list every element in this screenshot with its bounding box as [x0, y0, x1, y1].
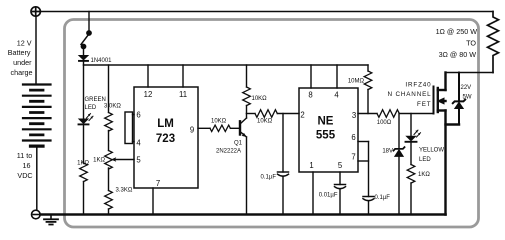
resistor 10K (base) [210, 125, 230, 131]
pin 7 wire to bus [152, 188, 154, 215]
resistor 1K (green LED) [80, 163, 88, 182]
label 12V battery under charge [8, 39, 33, 77]
svg-text:0.1µF: 0.1µF [375, 195, 391, 201]
svg-text:FET: FET [417, 101, 431, 108]
resistor 100 ohm [377, 110, 399, 118]
svg-text:LED: LED [419, 157, 431, 163]
wire 3.0K to pot [108, 131, 110, 151]
svg-text:12 V: 12 V [17, 39, 32, 48]
minus terminal [32, 210, 41, 219]
wire top rail down to switch [88, 12, 90, 32]
svg-text:4: 4 [334, 91, 339, 100]
pin 1 wire to bus [312, 172, 314, 215]
svg-text:11: 11 [179, 90, 187, 99]
wire 100 ohm to FET gate [399, 113, 433, 115]
svg-text:IRFZ40: IRFZ40 [405, 82, 431, 89]
wire Q1 collector to node [246, 114, 248, 119]
reference element box between pins 6 and 4 [125, 112, 134, 144]
wire rail down green LED branch [83, 65, 85, 119]
green LED D2 [79, 114, 94, 125]
resistor 10K (series to pin 2) [255, 110, 277, 118]
label IRFZ40 N CHANNEL FET [387, 82, 431, 109]
svg-text:8: 8 [308, 91, 312, 100]
svg-text:GREEN: GREEN [85, 97, 106, 103]
board outline [65, 20, 479, 228]
wire switch to diode [83, 49, 85, 56]
pin 9 wire [198, 127, 210, 129]
svg-text:charge: charge [11, 68, 33, 77]
svg-text:VDC: VDC [17, 171, 32, 180]
pin 11 wire [182, 65, 184, 87]
svg-text:6: 6 [136, 111, 140, 120]
wire node down to 18V zener [398, 114, 400, 149]
pin 5 wire to 0.01uF cap [339, 172, 341, 185]
wire 1K to bus [410, 183, 412, 215]
pin 6 wire [358, 141, 369, 143]
wire drain node down to 22V zener [458, 73, 460, 101]
resistor 10K (pullup) [243, 87, 251, 106]
pot wiper wire to pin 5 [111, 157, 134, 161]
svg-text:2N2222A: 2N2222A [216, 149, 241, 155]
timer U2 NE555 box [299, 88, 358, 172]
power resistor 1-3 ohm [488, 12, 499, 73]
svg-text:10KΩ: 10KΩ [257, 119, 273, 125]
svg-text:10KΩ: 10KΩ [252, 96, 268, 102]
wire 22V zener to source wire [458, 109, 460, 125]
capacitor 0.01uF [335, 185, 346, 189]
wire node to 10K series [247, 113, 256, 115]
ground [44, 215, 58, 225]
svg-text:10MΩ: 10MΩ [348, 79, 365, 85]
svg-text:4: 4 [136, 139, 141, 148]
diode D1 1N4001 [79, 56, 88, 61]
yellow LED D3 [406, 130, 421, 142]
wire 10K to Q1 base [230, 127, 239, 129]
svg-text:1KΩ: 1KΩ [77, 161, 89, 167]
capacitor 0.1uF (pin 2) [278, 172, 289, 176]
svg-text:5: 5 [136, 156, 141, 165]
op-amp U1 LM723 box [134, 87, 198, 188]
wire top rail from plus to power resistor [41, 11, 493, 13]
wire pot to 3.3K [108, 168, 110, 191]
wire FET source to zener bottom [446, 123, 460, 125]
wire 10K to NE555 pin 2 [277, 113, 299, 115]
svg-text:1: 1 [309, 161, 313, 170]
wire yellow LED to 1K [410, 143, 412, 165]
wire plus terminal down to battery [35, 16, 37, 84]
svg-text:3.0KΩ: 3.0KΩ [104, 104, 121, 110]
V+ rail wire [84, 64, 369, 66]
potentiometer 1K [105, 151, 113, 170]
resistor 3.3K [105, 191, 113, 210]
wire diode to V+ rail [83, 62, 85, 66]
wire rail down to 10K pullup [246, 65, 248, 87]
svg-text:1KΩ: 1KΩ [418, 172, 430, 178]
svg-text:3Ω @ 80 W: 3Ω @ 80 W [439, 50, 477, 59]
svg-text:5W: 5W [463, 95, 472, 101]
pin 8 wire [310, 65, 312, 88]
svg-text:3: 3 [352, 111, 356, 120]
wire drain horizontal [446, 72, 494, 74]
pin 3 wire [358, 113, 377, 115]
svg-text:Q1: Q1 [234, 141, 243, 147]
svg-text:10KΩ: 10KΩ [211, 119, 227, 125]
svg-text:0.01µF: 0.01µF [319, 193, 338, 199]
svg-text:6: 6 [351, 133, 355, 142]
wire Q1 emitter to bus [246, 137, 248, 215]
wire zener to bus [398, 156, 400, 214]
svg-text:12: 12 [144, 90, 153, 99]
svg-text:YELLOW: YELLOW [419, 148, 444, 154]
wire rail down 3.0K chain [108, 65, 110, 113]
wire 1K to bus [83, 182, 85, 215]
svg-text:1N4001: 1N4001 [91, 58, 113, 64]
pin 4 wire [336, 65, 338, 88]
svg-text:100Ω: 100Ω [377, 120, 392, 126]
svg-text:TO: TO [466, 39, 476, 48]
wire 10K pullup to node [246, 106, 248, 114]
resistor 1K (yellow LED) [407, 165, 415, 184]
pin 12 wire [147, 65, 149, 87]
svg-text:5: 5 [338, 161, 343, 170]
svg-text:under: under [13, 58, 32, 67]
wire 0.01uF to bus [339, 189, 341, 215]
svg-text:3.3KΩ: 3.3KΩ [116, 188, 133, 194]
wire cap to bus [368, 201, 370, 215]
switch S1 [81, 31, 91, 49]
label power resistor [436, 27, 478, 59]
svg-text:11 to: 11 to [17, 151, 32, 160]
plus terminal [31, 7, 40, 16]
wire 3.3K to bus [108, 209, 110, 215]
ground bus wire [40, 213, 445, 216]
wire junction down to 0.1uF cap [282, 114, 284, 173]
svg-text:1KΩ: 1KΩ [93, 158, 105, 164]
wire green LED to 1K resistor [83, 125, 85, 163]
transistor Q2 IRFZ40 MOSFET [434, 73, 446, 215]
svg-text:NE: NE [318, 116, 334, 128]
wire 10M down to pin3 node [367, 90, 369, 114]
svg-text:7: 7 [156, 179, 160, 188]
svg-text:N CHANNEL: N CHANNEL [387, 91, 431, 98]
resistor 3.0K [105, 113, 113, 132]
resistor 10M [364, 71, 372, 90]
capacitor 0.1uF (pins 6-7) [363, 197, 374, 201]
svg-text:9: 9 [190, 126, 194, 135]
transistor Q1 2N2222A [240, 118, 247, 137]
wire node down to yellow LED [410, 114, 412, 137]
svg-text:555: 555 [316, 130, 336, 142]
svg-text:16: 16 [23, 161, 31, 170]
svg-text:LED: LED [85, 105, 97, 111]
label 11 to 16 VDC [17, 151, 33, 180]
battery B1 [23, 85, 51, 147]
svg-text:1Ω @ 250 W: 1Ω @ 250 W [436, 27, 478, 36]
wire pins 6-7 down to 0.1uF cap [368, 142, 370, 197]
zener diode 18V [394, 147, 405, 156]
wire rail corner down to 10M [367, 65, 369, 71]
svg-text:22V: 22V [461, 85, 472, 91]
pin 7 wire [358, 160, 369, 162]
wire battery to minus terminal [36, 148, 38, 210]
svg-text:7: 7 [351, 153, 355, 162]
svg-text:723: 723 [156, 133, 175, 145]
svg-text:2: 2 [300, 111, 304, 120]
wire cap to bus [282, 177, 284, 215]
svg-text:18V: 18V [382, 149, 393, 155]
svg-text:0.1µF: 0.1µF [261, 175, 277, 181]
svg-text:LM: LM [157, 118, 174, 130]
zener diode 22V 5W [453, 100, 465, 109]
svg-text:Battery: Battery [8, 48, 31, 57]
